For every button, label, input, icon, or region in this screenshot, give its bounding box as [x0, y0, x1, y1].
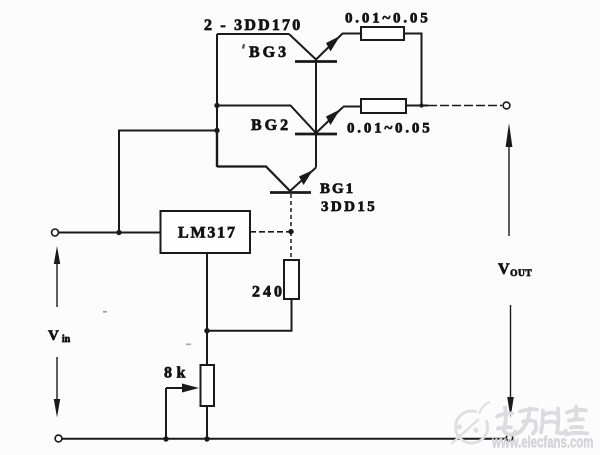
wire BG2 base — [217, 106, 316, 134]
terminal output — [503, 102, 510, 109]
wire pot bottom — [206, 406, 208, 439]
wire left tap — [119, 131, 217, 233]
junction — [204, 436, 209, 441]
terminal bottom right — [506, 435, 512, 441]
wire — [216, 34, 218, 130]
wiper arrow — [166, 384, 199, 393]
wire wiper down — [165, 388, 167, 439]
junction — [116, 230, 121, 235]
svg-text:VOUT: VOUT — [498, 261, 532, 279]
svg-text:BG2: BG2 — [251, 117, 291, 134]
wire — [343, 33, 361, 35]
wire input — [59, 232, 161, 234]
wire BG1 base — [217, 167, 290, 192]
junction — [163, 436, 168, 441]
svg-text:Vin: Vin — [48, 328, 71, 345]
Vout arrow top — [506, 123, 513, 236]
wire output — [406, 105, 428, 107]
svg-text:LM317: LM317 — [178, 225, 237, 242]
Vout arrow bottom — [507, 305, 514, 418]
speck — [103, 311, 107, 313]
terminal bottom left — [55, 435, 62, 442]
svg-text:www.elecfans.com: www.elecfans.com — [491, 433, 593, 452]
transistor BG2 — [295, 107, 343, 134]
Vin arrow bottom — [54, 357, 60, 418]
terminal input — [52, 229, 59, 236]
speck — [242, 44, 245, 49]
watermark logo circle — [451, 402, 490, 444]
speck — [186, 344, 191, 346]
transistor BG1 — [270, 168, 316, 193]
resistor R1 0.01~0.05 — [361, 27, 404, 40]
svg-text:8k: 8k — [164, 365, 190, 382]
wire — [207, 299, 292, 331]
svg-text:0.01~0.05: 0.01~0.05 — [347, 121, 433, 137]
potentiometer R4 8k — [201, 365, 215, 406]
wire to resistor 240 — [290, 232, 292, 260]
wire output dashed — [428, 105, 502, 107]
junction — [419, 103, 423, 107]
watermark calligraphy — [497, 407, 587, 435]
svg-text:240: 240 — [252, 284, 285, 301]
svg-text:2 - 3DD170: 2 - 3DD170 — [204, 17, 302, 34]
svg-text:3DD15: 3DD15 — [321, 199, 377, 215]
junction — [214, 128, 219, 133]
junction — [204, 328, 209, 333]
svg-text:BG1: BG1 — [320, 181, 355, 197]
wire — [217, 33, 289, 35]
wire BG2 collector — [315, 133, 317, 168]
junction — [288, 229, 293, 234]
wire BG3 collector — [315, 60, 317, 134]
wire — [404, 34, 422, 106]
junction — [214, 103, 219, 108]
svg-text:BG3: BG3 — [249, 44, 289, 61]
resistor R3 240 — [284, 260, 299, 299]
resistor R2 0.01~0.05 — [361, 99, 406, 113]
wire — [216, 130, 218, 167]
wire — [343, 106, 361, 108]
wire BG1 collector dashed — [290, 194, 292, 230]
transistor BG3 — [289, 33, 343, 62]
Vin arrow top — [54, 246, 60, 307]
IC U1 LM317 — [161, 211, 251, 253]
wire LM317 adj pin — [206, 253, 208, 365]
bottom wire — [62, 438, 506, 440]
svg-text:0.01~0.05: 0.01~0.05 — [345, 11, 431, 27]
wire LM317 out — [250, 231, 291, 233]
